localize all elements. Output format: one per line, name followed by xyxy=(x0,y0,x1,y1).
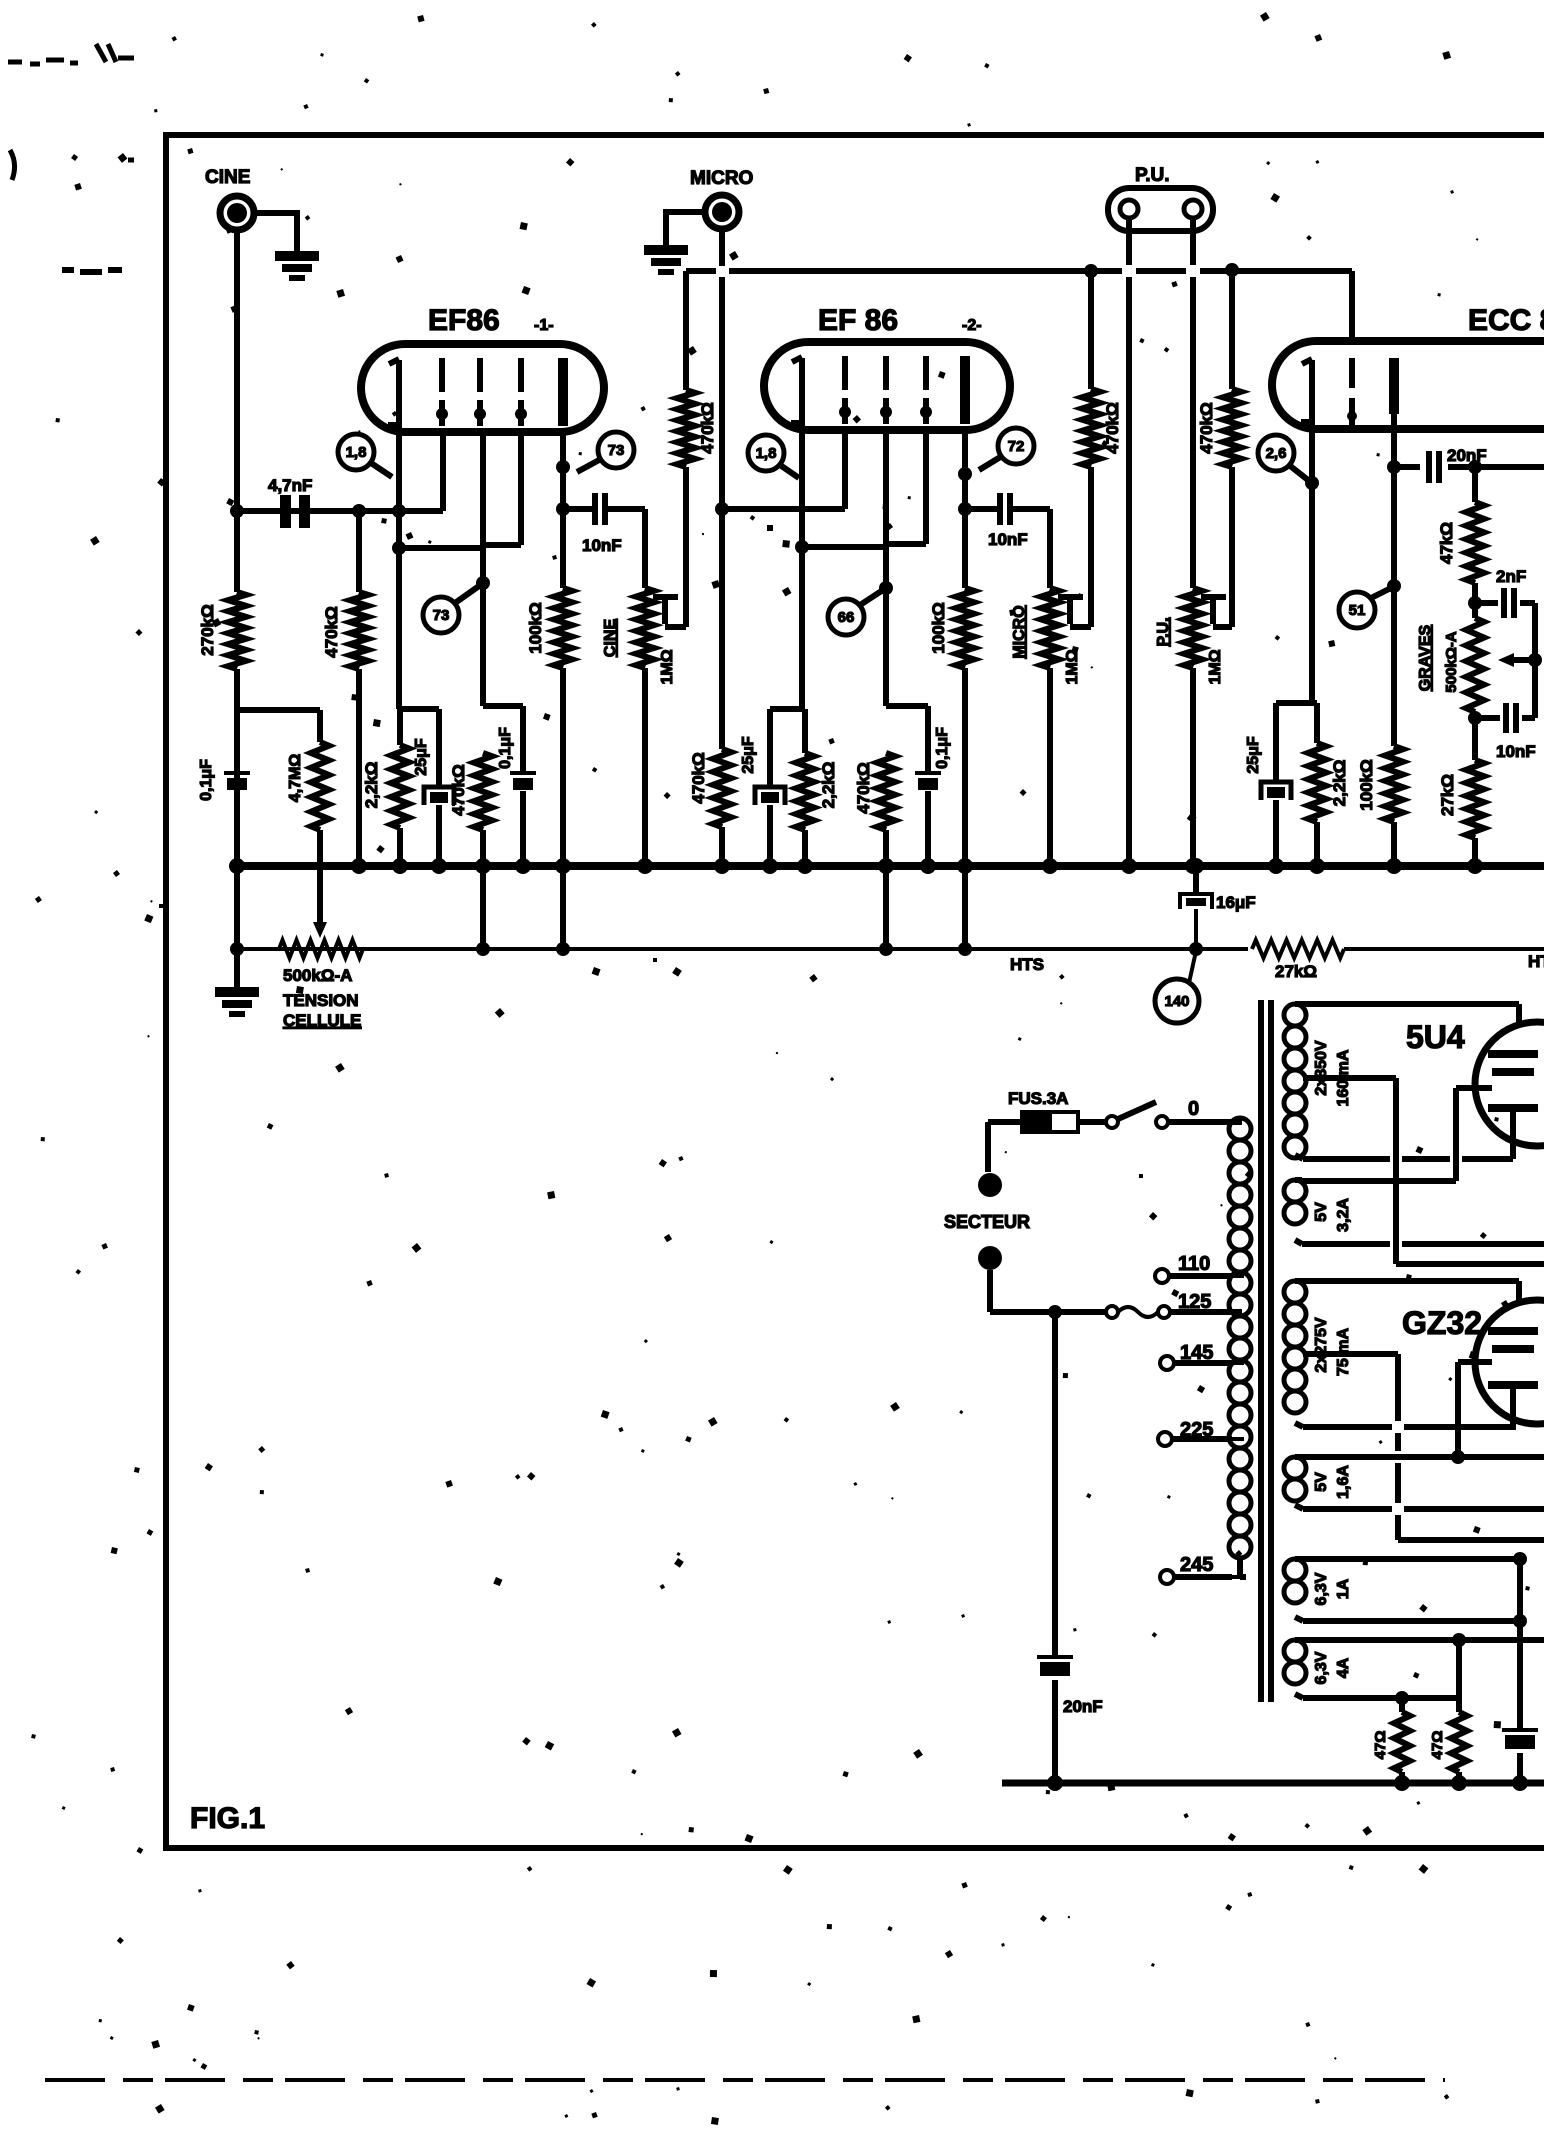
node grid wire EF86-1 xyxy=(230,504,443,518)
pin circle 72 plate EF86-2 xyxy=(979,428,1034,470)
svg-text:10nF: 10nF xyxy=(988,530,1028,549)
resistor 470k P.U. xyxy=(1197,270,1241,627)
label tap 225 xyxy=(1180,1419,1213,1441)
svg-text:245: 245 xyxy=(1180,1554,1213,1576)
svg-text:470kΩ: 470kΩ xyxy=(689,752,708,803)
transformer core xyxy=(1261,1000,1271,1702)
wire plate column ECC8 xyxy=(1387,414,1401,746)
terminal SECTEUR 2 xyxy=(978,1246,1002,1270)
label GZ32 xyxy=(1402,1305,1482,1341)
svg-text:470kΩ: 470kΩ xyxy=(698,402,717,453)
label tap 110 xyxy=(1178,1253,1210,1275)
capacitor 20nF ECC8 xyxy=(1394,446,1544,483)
label MICRO input xyxy=(690,168,753,189)
capacitor 10nF EF86-2 xyxy=(965,493,1050,549)
wire jack CINE to ground xyxy=(254,213,297,251)
wire MICRO jack down xyxy=(715,229,729,749)
ground at CINE jack xyxy=(275,251,319,281)
pin circle 73 screen EF86-1 xyxy=(423,586,479,633)
dashed baseline xyxy=(45,2078,1445,2082)
terminal tap 145 xyxy=(1160,1356,1232,1370)
label 2x350V xyxy=(1313,1040,1352,1106)
pin circle 1,8 EF86-2 xyxy=(748,435,799,478)
wire 10nF to pot MICRO xyxy=(1047,509,1053,588)
pins ECC8 xyxy=(1301,358,1399,425)
svg-text:0,1μF: 0,1μF xyxy=(497,727,514,769)
svg-text:CELLULE: CELLULE xyxy=(283,1011,361,1030)
svg-text:2x275V: 2x275V xyxy=(1313,1317,1330,1372)
main chassis bus xyxy=(229,858,1544,874)
potentiometer 1M CINE xyxy=(602,588,676,866)
svg-text:0: 0 xyxy=(1188,1098,1199,1120)
wire grid up to pin2 EF86-2 xyxy=(842,430,848,509)
svg-text:72: 72 xyxy=(1008,438,1025,455)
label tap 245 xyxy=(1180,1554,1213,1576)
transformer primary tap leads xyxy=(1232,1276,1244,1577)
resistor 470k feedback EF86-1 xyxy=(677,271,717,627)
tube EF86 2 label xyxy=(818,304,982,337)
resistor 2,2k EF86-2 xyxy=(796,709,838,866)
wire 10nF to pot CINE xyxy=(642,509,648,588)
wire 6,3V 4A bottom out xyxy=(1303,1691,1459,1705)
wiper GRAVES pot xyxy=(1498,653,1535,667)
HTS rail xyxy=(230,942,1544,956)
svg-text:GZ32: GZ32 xyxy=(1402,1305,1482,1341)
capacitor 25uF EF86-2 xyxy=(740,709,785,866)
wire cathode ECC8 xyxy=(1305,429,1319,703)
label CINE input xyxy=(205,167,250,188)
resistor 4,7M xyxy=(287,710,329,830)
svg-text:-1-: -1- xyxy=(534,317,554,334)
svg-text:47Ω: 47Ω xyxy=(1372,1731,1389,1760)
resistor 2,2k EF86-1 xyxy=(362,709,409,866)
svg-text:25μF: 25μF xyxy=(740,736,757,774)
svg-text:73: 73 xyxy=(433,607,450,624)
resistor 2,2k ECC8 xyxy=(1308,703,1349,866)
svg-text:CINE: CINE xyxy=(602,619,619,658)
label tap 125 xyxy=(1178,1291,1211,1313)
node cathode network ECC8 xyxy=(1276,700,1317,706)
node screen network EF86-1 xyxy=(483,703,523,709)
resistor 47R left xyxy=(1372,1698,1410,1783)
tube ECC8 label xyxy=(1468,304,1544,337)
svg-text:P.U.: P.U. xyxy=(1155,617,1172,646)
svg-text:P.U.: P.U. xyxy=(1135,165,1170,186)
secondary 5V 1,6A xyxy=(1284,1457,1306,1509)
wire secteur bottom xyxy=(990,1270,1106,1319)
secondary HV winding GZ32 xyxy=(1284,1281,1311,1427)
wire screen column EF86-1 xyxy=(476,432,490,706)
wire 6,3V 1A top out xyxy=(1302,1552,1527,1566)
transformer primary winding xyxy=(1229,1118,1251,1577)
wire CINE jack down xyxy=(234,230,240,511)
svg-text:25μF: 25μF xyxy=(1245,736,1262,774)
svg-text:5V: 5V xyxy=(1313,1202,1330,1222)
label HTS xyxy=(1010,955,1044,974)
wire plate2 to HTS xyxy=(962,866,968,949)
svg-text:27kΩ: 27kΩ xyxy=(1275,962,1317,981)
wire grid up to pin2 EF86-1 xyxy=(440,432,446,511)
pin circle 51 ECC8 xyxy=(1339,588,1391,628)
secondary 5V 3,2A xyxy=(1284,1180,1306,1244)
capacitor 0,1uF EF86-1 xyxy=(497,706,536,866)
svg-text:GRAVES: GRAVES xyxy=(1417,624,1434,691)
wire P.U. left pin down xyxy=(1126,218,1132,866)
jack MICRO xyxy=(705,195,739,229)
label 6,3V 1A xyxy=(1313,1572,1352,1605)
capacitor 25uF ECC8 xyxy=(1245,703,1291,866)
label FUS.3A xyxy=(1008,1089,1068,1108)
svg-text:1MΩ: 1MΩ xyxy=(1064,649,1081,684)
border frame of schematic xyxy=(163,132,1544,1851)
wire screen1 to HTS xyxy=(480,866,486,949)
wire plate column EF86-1 xyxy=(556,432,570,588)
svg-text:1MΩ: 1MΩ xyxy=(659,649,676,684)
ground main bus xyxy=(215,866,259,1017)
capacitor 0,1uF input xyxy=(198,708,250,866)
svg-text:47Ω: 47Ω xyxy=(1429,1731,1446,1760)
svg-text:470kΩ: 470kΩ xyxy=(322,606,341,657)
secondary 6,3V 1A xyxy=(1284,1559,1306,1621)
pin circle 66 EF86-2 xyxy=(828,590,883,635)
wire 5V 1,6A bottom out xyxy=(1303,1506,1544,1512)
resistor 470k grid1 xyxy=(322,511,368,866)
wire plate1 to HTS xyxy=(560,866,566,949)
label 2x275V xyxy=(1313,1317,1352,1376)
wire HV bottom to 5U4 xyxy=(1303,1156,1513,1162)
wire HV2 center tap xyxy=(1311,1354,1544,1540)
switch voltage selector xyxy=(1106,1306,1230,1318)
wire g3 jog EF86-1 xyxy=(483,432,521,545)
pin circle 2,6 ECC8 xyxy=(1258,435,1308,480)
resistor 27k HTS xyxy=(1252,940,1344,981)
potentiometer 1M P.U. xyxy=(1155,588,1224,866)
svg-text:125: 125 xyxy=(1178,1291,1211,1313)
svg-text:1MΩ: 1MΩ xyxy=(1207,649,1224,684)
wire 5V 1,6A top out xyxy=(1303,1450,1544,1464)
label 5V 1,6A xyxy=(1313,1465,1352,1499)
node grid wire EF86-2 xyxy=(722,506,845,512)
resistor 470k feedback EF86-2 xyxy=(1082,271,1122,627)
svg-text:10nF: 10nF xyxy=(582,536,622,555)
svg-text:HT: HT xyxy=(1528,952,1544,971)
node 4,7M jog xyxy=(237,707,320,713)
capacitor 4,7nF xyxy=(268,476,312,528)
resistor 47R right xyxy=(1429,1640,1467,1783)
svg-text:470kΩ: 470kΩ xyxy=(854,762,873,813)
svg-text:20nF: 20nF xyxy=(1063,1697,1103,1716)
svg-text:2nF: 2nF xyxy=(1496,567,1526,586)
circle 140 voltage xyxy=(1155,951,1199,1023)
wire secteur top xyxy=(988,1122,1106,1172)
label P.U. input xyxy=(1135,165,1170,186)
ground at MICRO jack xyxy=(644,245,688,275)
terminal tap 245 xyxy=(1160,1570,1232,1584)
svg-text:TENSION: TENSION xyxy=(283,991,359,1010)
fuse 3A xyxy=(1022,1112,1078,1132)
svg-text:16μF: 16μF xyxy=(1216,893,1256,912)
svg-text:73: 73 xyxy=(608,442,625,459)
svg-text:EF86: EF86 xyxy=(428,304,500,337)
label SECTEUR xyxy=(944,1212,1030,1232)
svg-text:4,7MΩ: 4,7MΩ xyxy=(287,754,304,803)
label HT cut right xyxy=(1528,952,1544,971)
wire 5V winding bottom out xyxy=(1302,1241,1544,1247)
svg-text:6,3V: 6,3V xyxy=(1313,1651,1330,1684)
svg-text:2,2kΩ: 2,2kΩ xyxy=(819,762,838,809)
wire plate column EF86-2 xyxy=(958,430,972,588)
svg-text:CINE: CINE xyxy=(205,167,250,188)
wiper MICRO pot xyxy=(1058,597,1091,627)
potentiometer 1M MICRO xyxy=(1011,588,1081,866)
pentode EF86 1 xyxy=(361,344,604,432)
svg-text:66: 66 xyxy=(838,609,855,626)
svg-text:2x350V: 2x350V xyxy=(1313,1040,1330,1095)
wire HV1 center tap xyxy=(1311,1078,1544,1264)
svg-text:470kΩ: 470kΩ xyxy=(1197,402,1216,453)
wire 6,3V 4A top out xyxy=(1302,1633,1544,1647)
svg-text:1A: 1A xyxy=(1335,1578,1352,1599)
wiper P.U. pot xyxy=(1201,597,1232,627)
jack CINE xyxy=(220,196,254,230)
capacitor 2nF tone xyxy=(1475,567,1535,618)
svg-text:HTS: HTS xyxy=(1010,955,1044,974)
svg-text:47kΩ: 47kΩ xyxy=(1437,522,1456,564)
secondary 6,3V 4A xyxy=(1284,1640,1306,1698)
capacitor 16uF xyxy=(1180,866,1256,949)
label FIG.1 xyxy=(190,1802,265,1835)
pin circle 1,8 EF86-1 xyxy=(338,434,392,477)
wire jack MICRO to ground xyxy=(666,212,705,245)
wire screen2 to HTS xyxy=(883,866,889,949)
rectifier GZ32 xyxy=(1475,1300,1544,1430)
wire feedback rail xyxy=(686,263,1352,278)
power supply ground bus xyxy=(1002,1775,1544,1791)
node screen network EF86-2 xyxy=(886,703,928,709)
svg-text:100kΩ: 100kΩ xyxy=(1357,759,1376,810)
capacitor 20nF heater xyxy=(1502,1559,1538,1783)
svg-text:FIG.1: FIG.1 xyxy=(190,1802,265,1835)
secondary HV winding 5U4 xyxy=(1284,1004,1311,1159)
terminal tap 225 xyxy=(1158,1432,1232,1446)
svg-text:FUS.3A: FUS.3A xyxy=(1008,1089,1068,1108)
wire cathode EF86-2 xyxy=(795,430,886,709)
label tap 0 xyxy=(1188,1098,1199,1120)
svg-text:-2-: -2- xyxy=(962,317,982,334)
resistor 270k xyxy=(198,511,246,866)
svg-text:2,2kΩ: 2,2kΩ xyxy=(1330,760,1349,807)
rectifier 5U4 xyxy=(1475,1022,1544,1159)
wire P.U. right pin down xyxy=(1190,218,1196,588)
svg-text:5U4: 5U4 xyxy=(1406,1019,1465,1055)
wire GZ32 filament left xyxy=(1458,1362,1492,1457)
node cathode network EF86-1 xyxy=(399,706,439,712)
label 5V 3,2A xyxy=(1313,1198,1352,1232)
resistor 27k tone xyxy=(1438,712,1484,866)
resistor 47k xyxy=(1437,467,1484,618)
terminal tap 110 xyxy=(1155,1269,1232,1283)
wire 6,3V 1A bottom out xyxy=(1303,1614,1527,1628)
tube EF86 1 label xyxy=(428,304,554,337)
svg-text:1,8: 1,8 xyxy=(756,445,777,462)
wire HV2 bottom to GZ32 xyxy=(1303,1427,1513,1430)
resistor 470k screen EF86-1 xyxy=(449,753,492,866)
svg-text:EF 86: EF 86 xyxy=(818,304,898,337)
svg-text:1,6A: 1,6A xyxy=(1335,1465,1352,1499)
svg-text:ECC 8: ECC 8 xyxy=(1468,304,1544,337)
capacitor 10nF EF86-1 xyxy=(563,493,645,555)
wire g3 jog EF86-2 xyxy=(886,430,926,544)
wire 4,7M to wiper arrow xyxy=(313,830,327,938)
label tap 145 xyxy=(1180,1342,1213,1364)
wire tone loop right xyxy=(1528,603,1542,718)
resistor 470k MICRO xyxy=(689,749,731,866)
svg-text:2,2kΩ: 2,2kΩ xyxy=(362,762,381,809)
label 6,3V 4A xyxy=(1313,1651,1352,1684)
svg-text:100kΩ: 100kΩ xyxy=(526,602,545,653)
svg-text:270kΩ: 270kΩ xyxy=(198,604,217,655)
wire screen column EF86-2 xyxy=(879,430,893,706)
terminal SECTEUR 1 xyxy=(978,1173,1002,1197)
svg-text:20nF: 20nF xyxy=(1447,446,1487,465)
wire grid ECC8 xyxy=(1349,271,1355,341)
svg-text:25μF: 25μF xyxy=(413,738,430,776)
svg-text:4A: 4A xyxy=(1335,1657,1352,1678)
pentode EF86 2 xyxy=(764,342,1010,430)
capacitor 25uF EF86-1 xyxy=(413,709,454,866)
svg-text:140: 140 xyxy=(1164,993,1189,1010)
capacitor 10nF tone xyxy=(1468,703,1536,761)
svg-text:470kΩ: 470kΩ xyxy=(449,764,468,815)
svg-text:6,3V: 6,3V xyxy=(1313,1572,1330,1605)
wire HV top to 5U4 plate xyxy=(1302,1004,1519,1024)
potentiometer 500k cellule xyxy=(279,940,363,985)
svg-text:1,8: 1,8 xyxy=(346,444,367,461)
svg-text:0,1μF: 0,1μF xyxy=(198,759,215,801)
resistor 470k screen EF86-2 xyxy=(854,753,895,866)
label 5U4 xyxy=(1406,1019,1465,1055)
wire HV top to GZ32 plate xyxy=(1302,1281,1519,1301)
svg-text:27kΩ: 27kΩ xyxy=(1438,774,1457,816)
svg-text:100kΩ: 100kΩ xyxy=(929,602,948,653)
wire 5U4 filament left xyxy=(1302,1088,1492,1181)
svg-text:51: 51 xyxy=(1349,602,1366,619)
svg-text:MICRO: MICRO xyxy=(690,168,753,189)
switch mains top xyxy=(1106,1102,1230,1128)
svg-text:SECTEUR: SECTEUR xyxy=(944,1212,1030,1232)
label tension cellule xyxy=(283,991,361,1030)
svg-text:500kΩ-A: 500kΩ-A xyxy=(283,966,352,985)
resistor 100k ECC8 xyxy=(1357,746,1403,866)
potentiometer GRAVES 500k xyxy=(1417,618,1484,712)
svg-text:2,6: 2,6 xyxy=(1266,445,1287,462)
svg-text:4,7nF: 4,7nF xyxy=(268,476,312,495)
svg-text:0,1μF: 0,1μF xyxy=(934,727,951,769)
triode ECC8 outline xyxy=(1272,341,1544,429)
wire cathode EF86-1 xyxy=(392,432,483,709)
resistor 100k EF86-2 xyxy=(929,588,974,866)
pin circle 73 plate EF86-1 xyxy=(577,432,634,472)
resistor 100k EF86-1 xyxy=(526,588,572,866)
capacitor 0,1uF EF86-2 xyxy=(915,706,951,866)
svg-text:110: 110 xyxy=(1178,1253,1210,1275)
svg-text:3,2A: 3,2A xyxy=(1335,1198,1352,1232)
capacitor 20nF mains xyxy=(1037,1312,1103,1783)
svg-text:5V: 5V xyxy=(1313,1472,1330,1492)
connector P.U. xyxy=(1108,188,1213,231)
node cathode network EF86-2 xyxy=(770,706,805,712)
svg-text:10nF: 10nF xyxy=(1496,742,1536,761)
wiper CINE pot xyxy=(653,597,686,627)
svg-text:500kΩ-A: 500kΩ-A xyxy=(1443,631,1460,692)
